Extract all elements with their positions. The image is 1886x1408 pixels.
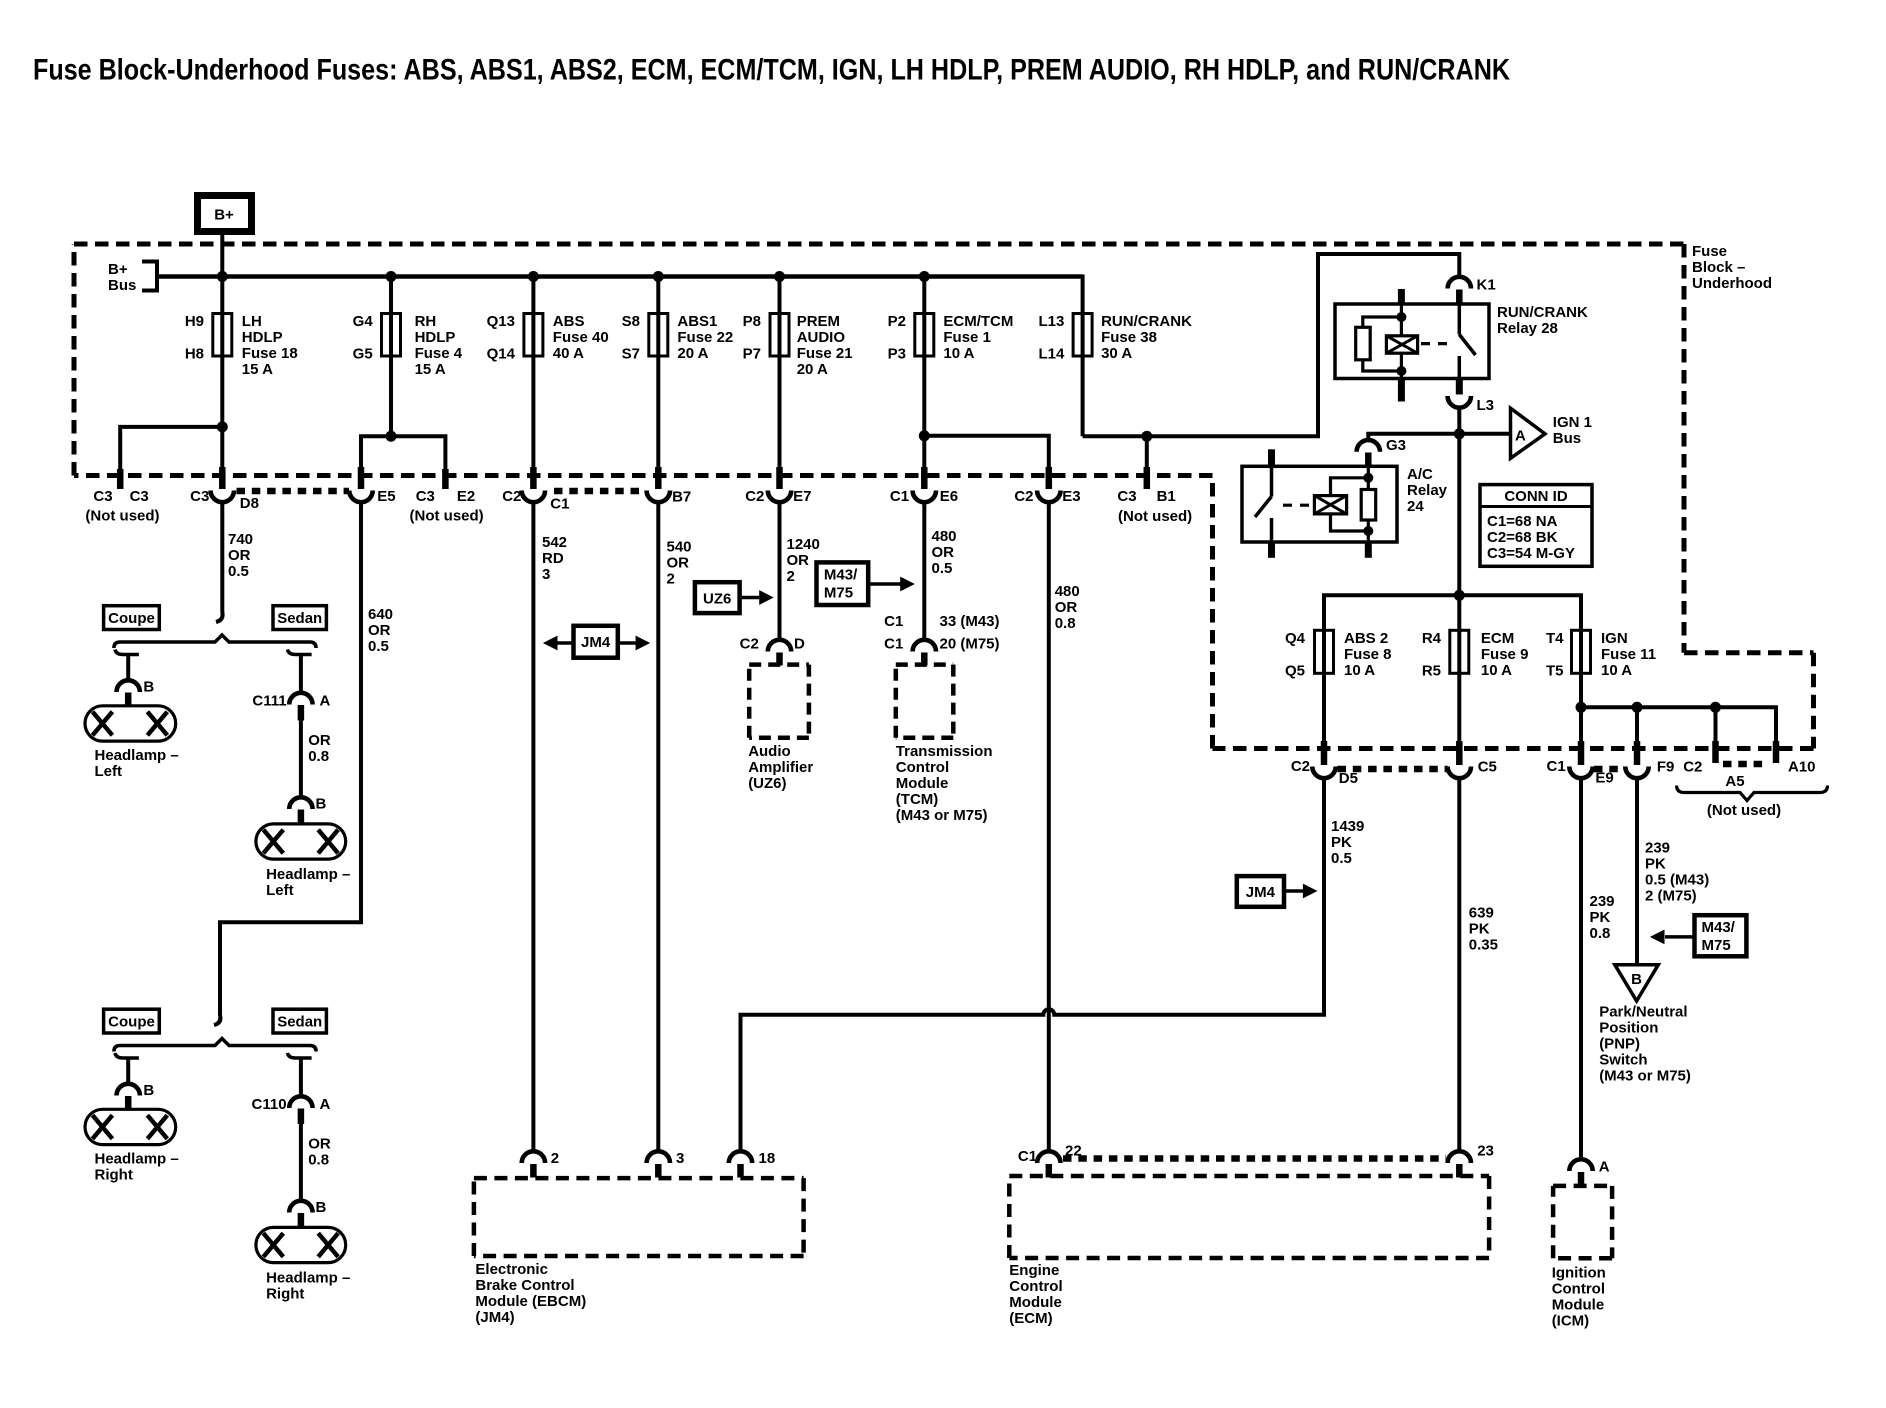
connector E3 (C2): [1014, 467, 1080, 505]
wire C5 to ECM pin 23: [1457, 778, 1461, 1152]
svg-text:L3: L3: [1477, 397, 1495, 414]
connector EBCM pin 2: [522, 1150, 559, 1177]
svg-text:P3: P3: [888, 346, 906, 363]
svg-text:2: 2: [551, 1150, 559, 1167]
svg-text:2: 2: [667, 571, 675, 588]
wire ECM/TCM branch to E3: [924, 436, 1049, 470]
wire RUN/CRANK output to relay K1: [1083, 254, 1460, 436]
svg-text:B+: B+: [108, 261, 128, 278]
svg-text:Relay 28: Relay 28: [1497, 320, 1558, 337]
connector F9: [1625, 741, 1674, 778]
svg-text:IGN 1: IGN 1: [1553, 414, 1592, 431]
svg-text:Switch: Switch: [1599, 1052, 1647, 1069]
svg-text:20 A: 20 A: [797, 361, 828, 378]
svg-text:B: B: [316, 796, 327, 813]
connector C3 not used (left): [85, 469, 159, 524]
svg-text:480: 480: [1055, 583, 1080, 600]
svg-text:C3=54 M-GY: C3=54 M-GY: [1487, 545, 1575, 562]
svg-text:Fuse 8: Fuse 8: [1344, 646, 1392, 663]
svg-text:S8: S8: [622, 313, 640, 330]
wire dotted connector link C1-B7: [554, 488, 645, 495]
node feed junction: [1454, 590, 1465, 601]
svg-text:Headlamp –: Headlamp –: [266, 866, 350, 883]
svg-text:Engine: Engine: [1009, 1262, 1059, 1279]
node junction ECM/TCM branch: [919, 430, 930, 441]
fuse block underhood dashed outline: [74, 244, 1814, 749]
svg-text:639: 639: [1469, 905, 1494, 922]
svg-text:B: B: [316, 1199, 327, 1216]
svg-text:OR: OR: [667, 555, 690, 572]
connector A10 not used stub: [1776, 741, 1816, 776]
wire C2/A5 drop: [1714, 707, 1718, 741]
svg-text:A10: A10: [1788, 759, 1816, 776]
svg-text:C3: C3: [1117, 488, 1136, 505]
svg-text:Sedan: Sedan: [277, 610, 322, 627]
wire ABS C1 down to EBCM pin 2: [531, 502, 535, 1152]
svg-text:Right: Right: [95, 1166, 133, 1183]
svg-text:Headlamp –: Headlamp –: [95, 1150, 179, 1167]
svg-text:C3: C3: [93, 488, 112, 505]
svg-text:Control: Control: [1552, 1280, 1605, 1297]
svg-text:Block –: Block –: [1692, 259, 1745, 276]
off-page triangle B to PNP switch: [1615, 965, 1659, 1001]
module ICM dashed box: [1552, 1186, 1612, 1330]
svg-text:Position: Position: [1599, 1020, 1658, 1037]
label 542 RD 3: [542, 534, 567, 583]
wire sedan branch (lower): [288, 1053, 312, 1058]
svg-text:C3: C3: [190, 488, 209, 505]
svg-text:AUDIO: AUDIO: [797, 329, 846, 346]
wire RH HDLP column: [389, 277, 393, 437]
label 640 OR 0.5: [368, 606, 393, 655]
svg-text:HDLP: HDLP: [242, 329, 283, 346]
label 239 PK 0.8: [1590, 893, 1615, 942]
svg-text:R4: R4: [1422, 630, 1442, 647]
label 1240 OR 2: [787, 536, 820, 585]
fuse ABS Fuse 40: [487, 313, 609, 363]
wire E5 down-left to lower coupe/sedan split: [214, 502, 361, 1026]
svg-text:Fuse 38: Fuse 38: [1101, 329, 1157, 346]
svg-text:Control: Control: [896, 759, 949, 776]
svg-text:23: 23: [1477, 1143, 1494, 1160]
wire dotted connector link D8-E5: [237, 488, 350, 495]
svg-text:ABS: ABS: [553, 313, 585, 330]
option box Sedan (lower): [273, 1009, 326, 1033]
svg-text:Left: Left: [266, 882, 294, 899]
connector C5: [1448, 741, 1497, 778]
svg-text:Electronic: Electronic: [475, 1261, 548, 1278]
svg-text:18: 18: [759, 1150, 776, 1167]
connector B headlamp left coupe: [117, 679, 155, 707]
svg-text:239: 239: [1590, 893, 1615, 910]
svg-text:C2: C2: [745, 488, 764, 505]
svg-text:Sedan: Sedan: [277, 1014, 322, 1031]
svg-text:(Not used): (Not used): [85, 507, 159, 524]
label OR 0.8 (upper): [308, 732, 331, 765]
svg-text:Amplifier: Amplifier: [748, 759, 813, 776]
svg-text:Relay: Relay: [1407, 482, 1448, 499]
svg-text:0.5: 0.5: [1331, 850, 1352, 867]
node bus junction LH: [217, 271, 228, 282]
wire E7 down to audio amplifier: [778, 502, 782, 641]
svg-text:HDLP: HDLP: [415, 329, 456, 346]
relay RUN/CRANK Relay 28 box: [1335, 304, 1588, 379]
svg-text:Coupe: Coupe: [108, 1014, 155, 1031]
wire L3 down through junctions: [1457, 408, 1461, 631]
svg-text:0.35: 0.35: [1469, 937, 1498, 954]
svg-text:Bus: Bus: [108, 277, 136, 294]
svg-text:IGN: IGN: [1601, 630, 1628, 647]
fuse RH HDLP Fuse 4: [353, 313, 463, 378]
connector C3/E2 not used: [410, 469, 484, 525]
svg-text:A: A: [1515, 428, 1526, 445]
svg-text:P7: P7: [743, 346, 761, 363]
svg-text:3: 3: [542, 566, 550, 583]
svg-text:2 (M75): 2 (M75): [1645, 888, 1697, 905]
svg-text:C5: C5: [1478, 759, 1497, 776]
svg-text:20 (M75): 20 (M75): [940, 636, 1000, 653]
svg-text:Fuse 9: Fuse 9: [1481, 646, 1529, 663]
fuse ECM Fuse 9: [1422, 630, 1529, 741]
svg-text:Fuse 22: Fuse 22: [677, 329, 733, 346]
svg-text:OR: OR: [308, 732, 331, 749]
fuse ABS 2 Fuse 8: [1285, 630, 1392, 741]
svg-text:Coupe: Coupe: [108, 610, 155, 627]
svg-text:Fuse Block-Underhood Fuses: AB: Fuse Block-Underhood Fuses: ABS, ABS1, A…: [33, 54, 1510, 87]
connector ECM pin 23: [1448, 1143, 1494, 1178]
svg-text:Fuse 18: Fuse 18: [242, 345, 298, 362]
svg-text:UZ6: UZ6: [703, 591, 731, 608]
svg-text:(Not used): (Not used): [1707, 802, 1781, 819]
label 1439 PK 0.5: [1331, 818, 1364, 867]
svg-text:ABS1: ABS1: [677, 313, 717, 330]
wire branch to C3 not used: [120, 427, 222, 470]
svg-text:S7: S7: [622, 346, 640, 363]
option box M43/M75 with arrow (lower): [1650, 915, 1747, 956]
wire sedan branch (upper): [288, 650, 312, 655]
svg-text:M43/: M43/: [824, 567, 858, 584]
wire coupe branch (lower): [115, 1053, 139, 1058]
svg-text:C111: C111: [252, 692, 286, 709]
svg-text:C1: C1: [890, 488, 909, 505]
svg-text:Left: Left: [95, 763, 123, 780]
wire dotted connector link A5-A10: [1723, 761, 1769, 768]
relay 28 switch: [1458, 304, 1462, 335]
svg-text:0.8: 0.8: [1590, 925, 1611, 942]
svg-text:CONN ID: CONN ID: [1504, 488, 1568, 505]
wire RH branch to E5 and E2: [361, 436, 445, 470]
fuse PREM AUDIO Fuse 21: [743, 313, 853, 378]
svg-text:Q14: Q14: [487, 346, 516, 363]
module Audio Amplifier (UZ6) dashed box: [748, 665, 813, 793]
svg-text:0.8: 0.8: [308, 1152, 329, 1169]
connector C110 A: [252, 1096, 331, 1124]
svg-text:JM4: JM4: [581, 634, 611, 651]
svg-text:K1: K1: [1477, 277, 1496, 294]
wire E3 down to ECM pin 22: [1047, 502, 1051, 1152]
relay A/C Relay 24 box: [1242, 466, 1448, 542]
svg-text:T4: T4: [1546, 630, 1564, 647]
svg-text:(ECM): (ECM): [1009, 1310, 1052, 1327]
svg-text:C2: C2: [1014, 488, 1033, 505]
svg-text:F9: F9: [1657, 759, 1675, 776]
svg-text:P2: P2: [888, 313, 906, 330]
module ECM dashed box: [1009, 1176, 1489, 1327]
lamp headlamp left (coupe): [85, 706, 179, 780]
svg-text:A: A: [320, 692, 331, 709]
svg-text:Underhood: Underhood: [1692, 275, 1772, 292]
splice box JM4 with arrow (lower): [1237, 876, 1318, 907]
svg-text:Ignition: Ignition: [1552, 1264, 1606, 1281]
connector B7: [647, 467, 692, 506]
brace coupe/sedan split (lower): [114, 1039, 316, 1052]
fuse ECM/TCM Fuse 1: [888, 313, 1014, 363]
svg-text:Right: Right: [266, 1286, 304, 1303]
option box Sedan (upper): [273, 606, 326, 630]
svg-text:D: D: [794, 636, 805, 653]
node junction F9: [1632, 702, 1643, 713]
wire PREM AUDIO column: [778, 277, 782, 469]
wire RUN/CRANK column from bus corner: [1080, 277, 1082, 437]
label Park/Neutral Position (PNP) Switch: [1599, 1004, 1691, 1085]
svg-text:0.5 (M43): 0.5 (M43): [1645, 872, 1709, 889]
svg-text:JM4: JM4: [1246, 884, 1276, 901]
option box Coupe (lower): [104, 1009, 160, 1033]
svg-text:C1: C1: [1547, 758, 1566, 775]
svg-text:E3: E3: [1062, 488, 1080, 505]
svg-text:PREM: PREM: [797, 313, 840, 330]
fuse ABS1 Fuse 22: [622, 313, 734, 363]
svg-text:Headlamp –: Headlamp –: [266, 1270, 350, 1287]
svg-text:Q4: Q4: [1285, 630, 1306, 647]
svg-text:D8: D8: [240, 495, 259, 512]
relay 28 coil line: [1398, 289, 1405, 304]
lamp headlamp right (coupe): [85, 1109, 179, 1183]
svg-text:Audio: Audio: [748, 743, 791, 760]
connector B headlamp right sedan: [289, 1199, 326, 1228]
connector B headlamp right coupe: [117, 1082, 155, 1110]
relay 24 coil line with resistor: [1367, 466, 1370, 489]
B+ Bus label bracket: [142, 262, 157, 291]
svg-text:OR: OR: [308, 1136, 331, 1153]
node bus junction ABS1: [653, 271, 664, 282]
splice box JM4 with arrows: [543, 626, 650, 658]
svg-text:B7: B7: [672, 489, 691, 506]
svg-text:40 A: 40 A: [553, 345, 584, 362]
svg-text:Control: Control: [1009, 1278, 1062, 1295]
svg-text:PK: PK: [1331, 834, 1352, 851]
node bus junction ECM/TCM: [919, 271, 930, 282]
svg-text:P8: P8: [743, 313, 761, 330]
svg-text:G4: G4: [353, 313, 374, 330]
brace coupe/sedan split (upper): [114, 635, 316, 648]
svg-text:1240: 1240: [787, 536, 820, 553]
wire IGN output distribution: [1581, 707, 1776, 741]
wire coupe branch (upper): [115, 650, 139, 655]
wire ECM/TCM column: [922, 277, 926, 469]
connector E5: [349, 467, 395, 505]
label 740 OR 0.5: [228, 531, 253, 580]
svg-text:740: 740: [228, 531, 253, 548]
svg-text:C1: C1: [550, 496, 569, 513]
svg-text:(ICM): (ICM): [1552, 1312, 1590, 1329]
svg-text:M75: M75: [1702, 937, 1731, 954]
svg-text:Brake Control: Brake Control: [475, 1277, 574, 1294]
svg-text:33 (M43): 33 (M43): [940, 613, 1000, 630]
label Fuse Block - Underhood: [1692, 243, 1772, 292]
option box M43/M75 with arrow (upper): [817, 562, 915, 605]
svg-text:10 A: 10 A: [943, 345, 974, 362]
svg-text:C1: C1: [884, 636, 903, 653]
connector ECM pin 22 (C1): [1018, 1143, 1082, 1178]
svg-text:LH: LH: [242, 313, 262, 330]
svg-text:(JM4): (JM4): [475, 1309, 514, 1326]
svg-text:540: 540: [667, 539, 692, 556]
fuse IGN Fuse 11: [1546, 630, 1656, 741]
wire E6 down to TCM: [922, 502, 926, 641]
connector E9 (C1): [1547, 741, 1614, 787]
svg-text:(Not used): (Not used): [1118, 508, 1192, 525]
svg-text:OR: OR: [1055, 599, 1078, 616]
svg-text:C2: C2: [502, 488, 521, 505]
svg-text:(M43 or M75): (M43 or M75): [896, 807, 988, 824]
label 480 OR 0.5: [932, 528, 957, 577]
module Transmission Control Module dashed box: [896, 665, 993, 825]
svg-text:OR: OR: [787, 552, 810, 569]
svg-text:Fuse 40: Fuse 40: [553, 329, 609, 346]
node junction LH branch: [217, 421, 228, 432]
connector L3 relay pin: [1448, 379, 1494, 415]
wire C111 to headlamp B: [299, 721, 303, 799]
svg-text:B: B: [143, 1082, 154, 1099]
svg-text:0.8: 0.8: [308, 748, 329, 765]
svg-text:E5: E5: [377, 488, 395, 505]
connector C2/A5 not used stub: [1683, 741, 1715, 776]
svg-text:(Not used): (Not used): [410, 508, 484, 525]
connector 33/20 (C1) TCM pin: [884, 613, 999, 665]
svg-text:H9: H9: [185, 313, 204, 330]
IGN 1 Bus triangle A: [1511, 408, 1592, 458]
connector B headlamp left sedan: [289, 796, 326, 825]
CONN ID table: [1480, 485, 1592, 567]
node bus junction PREM AUDIO: [774, 271, 785, 282]
wire C110 to headlamp B: [299, 1124, 303, 1202]
node B+ bus bar: [157, 274, 1083, 279]
node junction B1 stub: [1141, 431, 1152, 442]
svg-text:542: 542: [542, 534, 567, 551]
svg-text:G5: G5: [353, 346, 373, 363]
svg-text:OR: OR: [228, 547, 251, 564]
wire F9 drop: [1635, 707, 1639, 741]
svg-text:20 A: 20 A: [677, 345, 708, 362]
svg-text:0.5: 0.5: [368, 638, 389, 655]
node IGN output junction: [1576, 702, 1587, 713]
svg-text:PK: PK: [1645, 856, 1666, 873]
svg-text:10 A: 10 A: [1344, 662, 1375, 679]
label 540 OR 2: [667, 539, 692, 588]
svg-text:C110: C110: [252, 1096, 287, 1113]
svg-text:D5: D5: [1339, 770, 1358, 787]
svg-text:3: 3: [676, 1150, 684, 1167]
svg-text:10 A: 10 A: [1481, 662, 1512, 679]
relay 28 resistor branch: [1363, 317, 1402, 327]
wire dotted connector link E9-F9: [1594, 766, 1624, 773]
connector B1 (C3) not used: [1117, 467, 1192, 525]
relay 24 switch: [1268, 449, 1275, 466]
svg-text:Fuse 1: Fuse 1: [943, 329, 991, 346]
svg-text:B+: B+: [214, 207, 234, 224]
svg-text:Fuse 4: Fuse 4: [415, 345, 463, 362]
label 239 PK 0.5 (M43) 2 (M75): [1645, 840, 1709, 905]
connector C1 (ABS, C2 label): [502, 467, 569, 513]
wire LH HDLP column: [220, 277, 224, 469]
node junction C2/A5: [1710, 702, 1721, 713]
svg-text:C2: C2: [1683, 759, 1702, 776]
svg-text:OR: OR: [368, 622, 391, 639]
svg-text:C3: C3: [416, 488, 435, 505]
connector ICM pin A: [1569, 1158, 1609, 1186]
svg-text:C1: C1: [1018, 1148, 1037, 1165]
connector D5 (C2): [1291, 741, 1358, 787]
svg-text:Module: Module: [1552, 1296, 1605, 1313]
svg-text:C1: C1: [884, 613, 903, 630]
svg-text:Bus: Bus: [1553, 430, 1581, 447]
wire B+ box to bus: [220, 232, 224, 277]
svg-text:A: A: [1599, 1158, 1610, 1175]
connector G3 relay pin: [1357, 437, 1406, 467]
module EBCM dashed box: [474, 1178, 804, 1326]
svg-text:0.8: 0.8: [1055, 615, 1076, 632]
connector D8 (C3): [190, 467, 259, 512]
svg-text:(M43 or M75): (M43 or M75): [1599, 1068, 1691, 1085]
wire ABS1 column: [656, 277, 660, 469]
svg-text:A: A: [320, 1096, 331, 1113]
connector D (C2) audio amplifier pin: [740, 636, 805, 666]
connector EBCM pin 18: [729, 1150, 775, 1177]
svg-text:E2: E2: [457, 488, 475, 505]
wire dotted connector link D5-C5: [1338, 766, 1448, 773]
svg-text:ECM/TCM: ECM/TCM: [943, 313, 1013, 330]
node bus junction RH: [386, 271, 397, 282]
svg-text:R5: R5: [1422, 663, 1441, 680]
option box UZ6 with arrow: [695, 582, 774, 613]
svg-text:C2: C2: [1291, 758, 1310, 775]
svg-text:Fuse: Fuse: [1692, 243, 1727, 260]
svg-text:A5: A5: [1725, 773, 1744, 790]
option box Coupe (upper): [104, 606, 160, 630]
svg-text:M75: M75: [824, 585, 853, 602]
label OR 0.8 (lower): [308, 1136, 331, 1169]
svg-text:2: 2: [787, 568, 795, 585]
node junction RH branch: [386, 431, 397, 442]
svg-text:Q5: Q5: [1285, 663, 1305, 680]
wire B7 down to EBCM pin 3: [656, 502, 660, 1152]
svg-text:15 A: 15 A: [415, 361, 446, 378]
svg-text:15 A: 15 A: [242, 361, 273, 378]
svg-text:PK: PK: [1469, 921, 1490, 938]
svg-text:Q13: Q13: [487, 313, 515, 330]
connector EBCM pin 3: [647, 1150, 685, 1177]
svg-text:Fuse 21: Fuse 21: [797, 345, 853, 362]
node bus junction ABS: [528, 271, 539, 282]
label 480 OR 0.8: [1055, 583, 1080, 632]
connector E6 (C1): [890, 467, 958, 505]
connector C111 A: [252, 692, 330, 720]
lamp headlamp left (sedan): [256, 824, 350, 899]
svg-text:0.5: 0.5: [932, 560, 953, 577]
svg-text:RUN/CRANK: RUN/CRANK: [1101, 313, 1192, 330]
connector E7 (C2): [745, 467, 811, 505]
